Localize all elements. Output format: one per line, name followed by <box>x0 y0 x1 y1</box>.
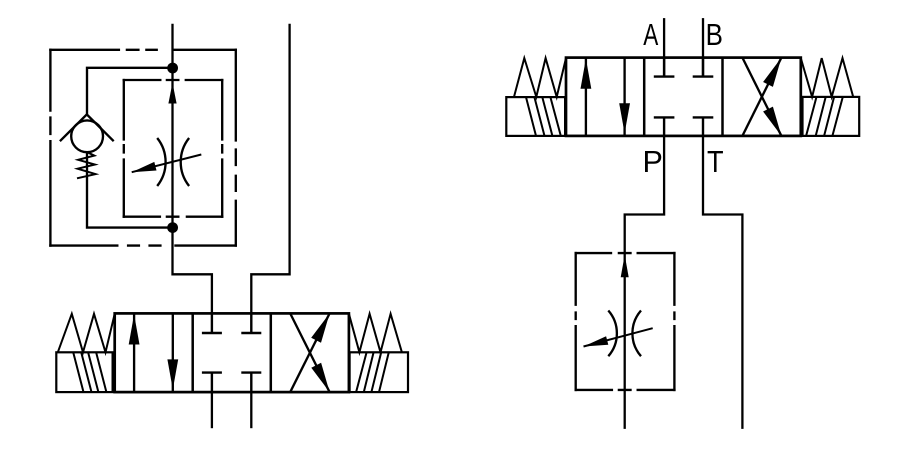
valve V1 left spring <box>58 314 115 353</box>
valve V1 right solenoid <box>350 352 408 392</box>
valve V1 center position blocked port stubs <box>202 313 261 392</box>
svg-text:B: B <box>706 17 723 51</box>
valve V1 right spring <box>349 314 402 353</box>
valve V1 right position crossed arrow 2 <box>290 313 329 392</box>
adjustability arrow FC1 <box>132 155 202 173</box>
wire V1 bottom port stub left <box>211 392 213 428</box>
valve V1 right position crossed arrow 1 <box>290 313 329 392</box>
wire check-valve branch bottom <box>87 152 173 227</box>
wire T return (left circuit vertical 2 with jog to valve port) <box>251 24 289 314</box>
wire P supply (left circuit vertical 1 with jog to valve port) <box>173 24 212 314</box>
throttle restriction arcs FC2 <box>608 311 641 357</box>
valve V2 right position crossed arrow 2 <box>742 58 781 136</box>
wire B port line <box>702 18 704 77</box>
throttle valve FC2 enclosure (dash-dot box) <box>576 253 675 390</box>
valve V1 left position down-arrow <box>167 313 178 392</box>
valve V2 left spring <box>514 58 566 97</box>
directional valve V1 body <box>115 313 349 392</box>
directional valve V2 body <box>566 58 801 136</box>
valve V1 left solenoid <box>56 352 112 392</box>
throttle restriction arcs FC1 <box>157 138 189 186</box>
valve V2 right spring <box>801 58 853 97</box>
valve V2 right solenoid <box>803 97 860 136</box>
flow direction arrowhead on FC2 line <box>621 255 629 277</box>
check valve CV1 ball <box>71 120 103 152</box>
check valve CV1 spring <box>77 152 96 178</box>
wire T line from V2 to tank <box>703 136 742 429</box>
throttle valve FC1 inner enclosure (dash-dot box) <box>124 80 222 217</box>
adjustability arrow FC2 <box>584 328 653 346</box>
valve V2 left solenoid <box>506 97 565 136</box>
valve V2 left position down-arrow <box>619 58 630 136</box>
valve V2 left position up-arrow <box>581 58 592 135</box>
valve V2 center position blocked port stubs <box>654 58 714 136</box>
valve V1 left position up-arrow <box>129 314 140 392</box>
wire check-valve branch top <box>87 68 173 115</box>
svg-text:T: T <box>707 145 724 179</box>
svg-text:A: A <box>643 18 658 52</box>
junction dot upper <box>167 63 178 74</box>
flow control assembly FC1 outer enclosure (dash-dot box) <box>50 50 235 246</box>
valve V2 right position crossed arrow 1 <box>742 58 781 136</box>
wire V1 bottom port stub right <box>250 392 252 428</box>
wire P line from V2 through flow control FC2 <box>625 136 664 429</box>
svg-text:P: P <box>643 145 663 179</box>
flow direction arrowhead on FC1 line <box>168 83 176 104</box>
wire A port line <box>663 18 665 77</box>
junction dot lower <box>167 222 178 233</box>
check valve CV1 seat <box>60 114 114 141</box>
